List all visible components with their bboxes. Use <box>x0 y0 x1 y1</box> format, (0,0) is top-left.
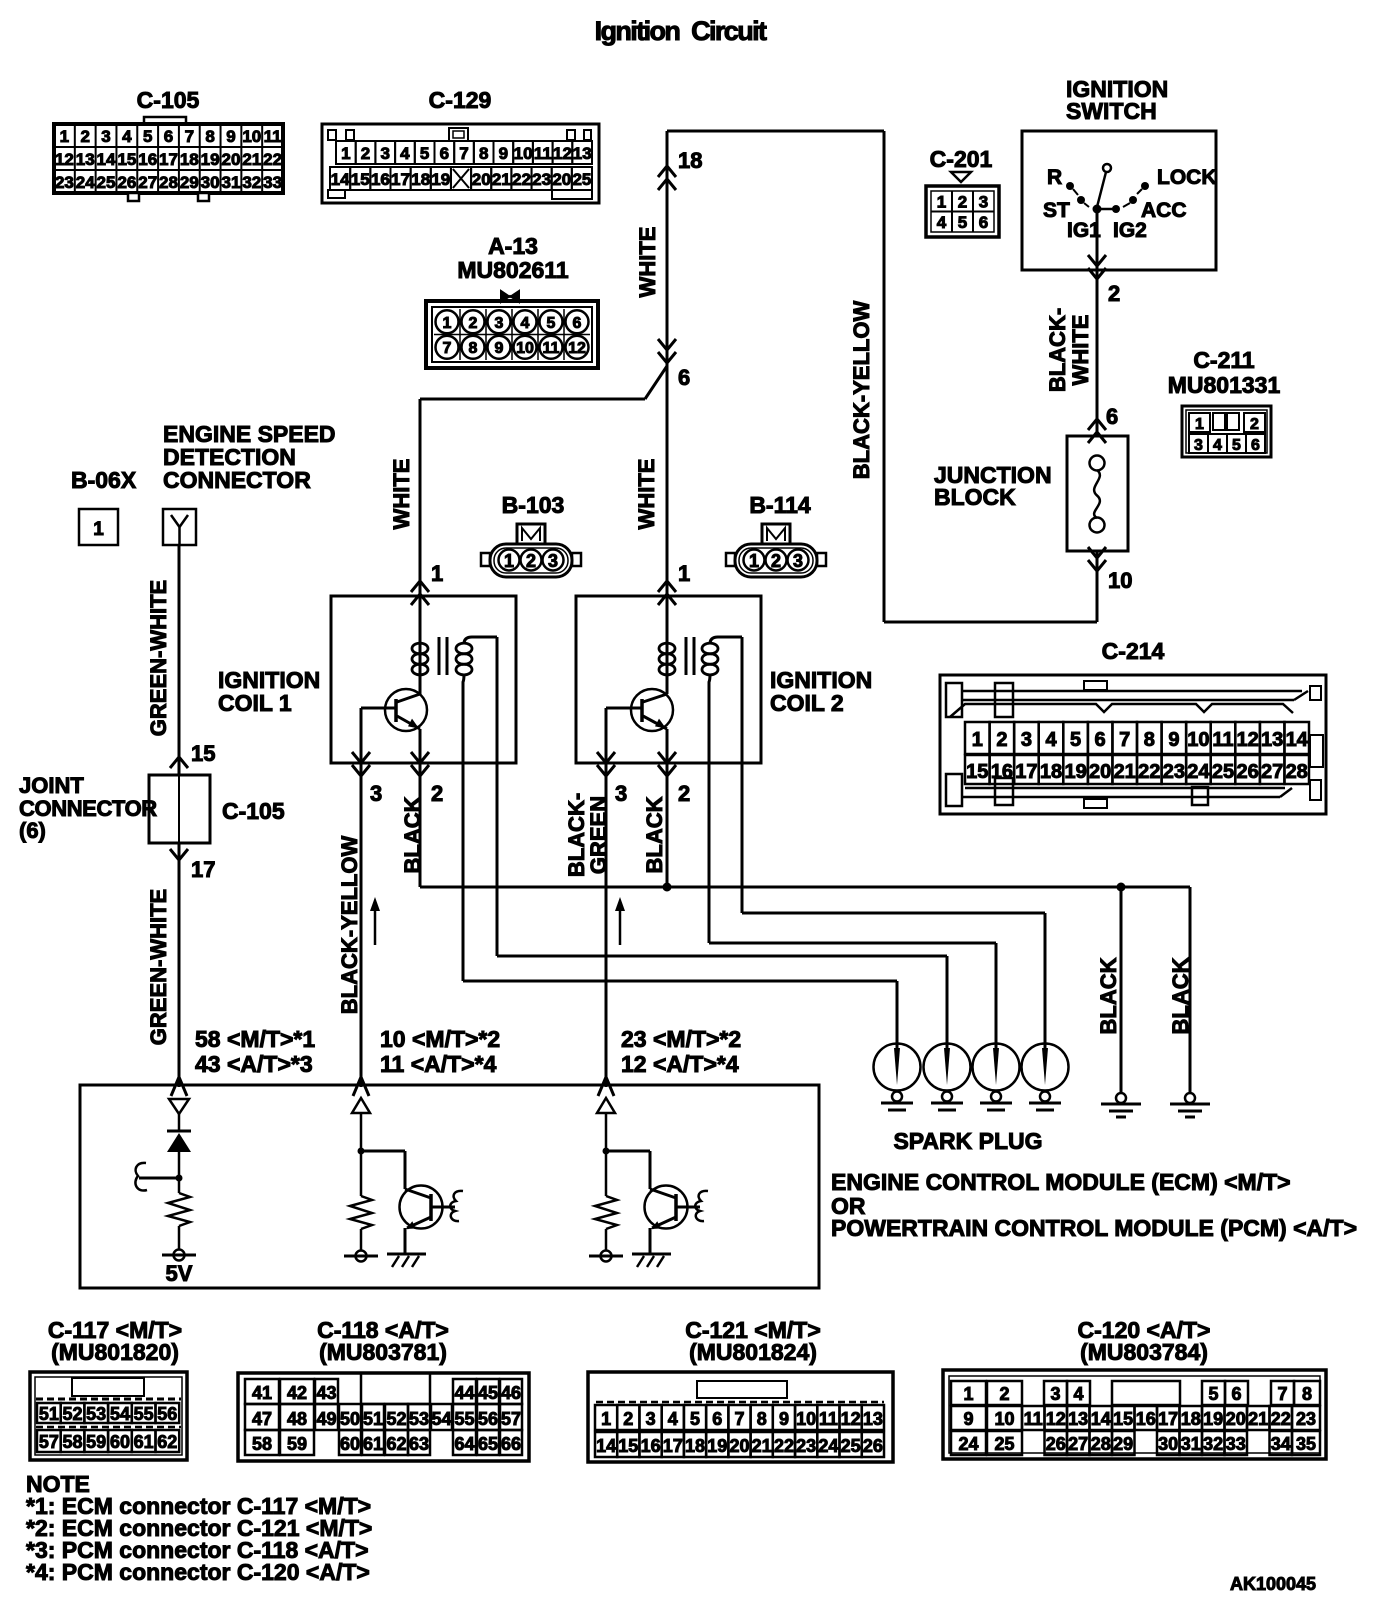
svg-text:WHITE: WHITE <box>1068 315 1093 386</box>
svg-text:23: 23 <box>55 173 74 192</box>
svg-text:14: 14 <box>97 150 116 169</box>
svg-text:18: 18 <box>1040 761 1062 783</box>
svg-text:2: 2 <box>1250 416 1259 433</box>
svg-text:34: 34 <box>1271 1434 1291 1454</box>
svg-text:17: 17 <box>1158 1409 1178 1429</box>
svg-text:19: 19 <box>707 1436 727 1456</box>
svg-text:LOCK: LOCK <box>1157 166 1217 189</box>
svg-text:2: 2 <box>771 551 781 571</box>
svg-text:24: 24 <box>818 1436 838 1456</box>
svg-text:2: 2 <box>678 781 690 806</box>
svg-text:28: 28 <box>1286 761 1308 783</box>
svg-text:WHITE: WHITE <box>389 459 414 530</box>
svg-text:POWERTRAIN CONTROL MODULE (PCM: POWERTRAIN CONTROL MODULE (PCM) <A/T> <box>831 1215 1357 1241</box>
svg-text:8: 8 <box>469 340 478 357</box>
svg-text:43: 43 <box>316 1383 336 1403</box>
svg-text:3: 3 <box>370 781 382 806</box>
svg-text:19: 19 <box>1064 761 1086 783</box>
svg-text:15: 15 <box>351 170 370 189</box>
svg-text:C-105: C-105 <box>137 87 200 113</box>
svg-text:57: 57 <box>39 1432 59 1452</box>
svg-text:54: 54 <box>431 1409 451 1429</box>
svg-text:20: 20 <box>552 170 571 189</box>
svg-text:BLACK: BLACK <box>642 796 667 873</box>
svg-text:WHITE: WHITE <box>635 227 660 298</box>
svg-text:17: 17 <box>663 1436 683 1456</box>
svg-text:11 <A/T>*4: 11 <A/T>*4 <box>380 1051 497 1077</box>
svg-text:13: 13 <box>76 150 95 169</box>
svg-text:6: 6 <box>979 213 988 232</box>
svg-text:4: 4 <box>400 144 410 163</box>
svg-text:17: 17 <box>391 170 410 189</box>
svg-text:1: 1 <box>443 315 452 332</box>
svg-text:5: 5 <box>690 1409 700 1429</box>
svg-text:16: 16 <box>991 761 1013 783</box>
svg-text:14: 14 <box>1091 1409 1111 1429</box>
svg-text:15: 15 <box>618 1436 638 1456</box>
svg-text:B-06X: B-06X <box>71 467 137 493</box>
svg-text:CONNECTOR: CONNECTOR <box>163 467 311 493</box>
svg-text:C-201: C-201 <box>930 146 993 172</box>
svg-text:2: 2 <box>361 144 370 163</box>
svg-text:20: 20 <box>472 170 491 189</box>
svg-text:19: 19 <box>201 150 220 169</box>
svg-text:1: 1 <box>504 551 514 571</box>
svg-text:BLOCK: BLOCK <box>934 484 1016 510</box>
svg-text:6: 6 <box>440 144 449 163</box>
svg-text:4: 4 <box>1045 729 1057 751</box>
svg-text:26: 26 <box>117 173 136 192</box>
svg-text:C-105: C-105 <box>222 798 285 824</box>
svg-text:10: 10 <box>242 127 261 146</box>
svg-text:R: R <box>1047 166 1062 189</box>
svg-text:5: 5 <box>143 127 152 146</box>
svg-text:5: 5 <box>1208 1384 1218 1404</box>
svg-text:6: 6 <box>1095 729 1106 751</box>
svg-text:2: 2 <box>1108 281 1120 306</box>
svg-text:COIL 2: COIL 2 <box>770 690 844 716</box>
svg-text:43 <A/T>*3: 43 <A/T>*3 <box>195 1051 313 1077</box>
svg-text:62: 62 <box>386 1434 406 1454</box>
svg-text:25: 25 <box>97 173 116 192</box>
svg-text:1: 1 <box>749 551 759 571</box>
svg-text:SWITCH: SWITCH <box>1066 98 1157 124</box>
svg-text:15: 15 <box>1113 1409 1133 1429</box>
svg-text:59: 59 <box>287 1434 307 1454</box>
svg-text:3: 3 <box>1050 1384 1060 1404</box>
svg-text:22: 22 <box>263 150 282 169</box>
svg-text:17: 17 <box>159 150 178 169</box>
svg-text:8: 8 <box>205 127 214 146</box>
svg-text:BLACK: BLACK <box>1168 957 1193 1034</box>
svg-text:19: 19 <box>1203 1409 1223 1429</box>
svg-text:12: 12 <box>1046 1409 1066 1429</box>
svg-text:(MU803784): (MU803784) <box>1080 1339 1208 1365</box>
svg-text:C-211: C-211 <box>1193 347 1255 373</box>
svg-text:12: 12 <box>553 144 572 163</box>
svg-text:6: 6 <box>1106 404 1118 429</box>
svg-text:15: 15 <box>966 761 988 783</box>
svg-text:9: 9 <box>779 1409 789 1429</box>
svg-text:42: 42 <box>287 1383 307 1403</box>
svg-text:4: 4 <box>521 315 530 332</box>
svg-text:12 <A/T>*4: 12 <A/T>*4 <box>621 1051 739 1077</box>
svg-text:*4: PCM connector C-120 <A/T>: *4: PCM connector C-120 <A/T> <box>26 1559 370 1585</box>
svg-text:56: 56 <box>157 1404 177 1424</box>
svg-text:IG2: IG2 <box>1113 219 1147 242</box>
svg-text:11: 11 <box>543 340 560 357</box>
svg-text:29: 29 <box>180 173 199 192</box>
svg-text:27: 27 <box>1068 1434 1088 1454</box>
svg-text:2: 2 <box>623 1409 633 1429</box>
svg-text:30: 30 <box>1158 1434 1178 1454</box>
svg-text:41: 41 <box>252 1383 272 1403</box>
svg-text:13: 13 <box>1261 729 1283 751</box>
svg-text:11: 11 <box>264 127 282 146</box>
svg-text:23: 23 <box>796 1436 816 1456</box>
svg-text:JOINT: JOINT <box>19 773 84 798</box>
svg-text:7: 7 <box>1119 729 1130 751</box>
svg-text:56: 56 <box>478 1409 498 1429</box>
svg-text:ENGINE CONTROL MODULE (ECM) <M: ENGINE CONTROL MODULE (ECM) <M/T> <box>831 1169 1291 1195</box>
svg-text:B-103: B-103 <box>502 492 565 518</box>
svg-text:1: 1 <box>937 193 946 212</box>
svg-text:21: 21 <box>492 170 511 189</box>
svg-text:21: 21 <box>242 150 261 169</box>
svg-text:(MU801824): (MU801824) <box>689 1339 817 1365</box>
svg-text:16: 16 <box>371 170 390 189</box>
svg-text:59: 59 <box>86 1432 106 1452</box>
svg-text:66: 66 <box>501 1434 521 1454</box>
svg-text:1: 1 <box>60 127 69 146</box>
svg-text:10: 10 <box>514 144 533 163</box>
svg-text:25: 25 <box>994 1434 1014 1454</box>
svg-text:8: 8 <box>1302 1384 1312 1404</box>
svg-text:11: 11 <box>819 1409 838 1429</box>
svg-text:14: 14 <box>331 170 350 189</box>
svg-text:5V: 5V <box>166 1261 193 1286</box>
svg-text:20: 20 <box>1226 1409 1246 1429</box>
svg-text:18: 18 <box>411 170 430 189</box>
svg-text:51: 51 <box>39 1404 59 1424</box>
svg-text:28: 28 <box>159 173 178 192</box>
svg-text:22: 22 <box>1271 1409 1291 1429</box>
svg-text:11: 11 <box>534 144 552 163</box>
svg-text:6: 6 <box>1231 1384 1241 1404</box>
svg-text:9: 9 <box>226 127 235 146</box>
svg-text:54: 54 <box>110 1404 130 1424</box>
svg-text:9: 9 <box>499 144 508 163</box>
svg-text:3: 3 <box>495 315 504 332</box>
svg-text:20: 20 <box>1089 761 1111 783</box>
svg-text:4: 4 <box>937 213 947 232</box>
svg-text:5: 5 <box>547 315 556 332</box>
svg-text:21: 21 <box>1114 761 1136 783</box>
svg-text:6: 6 <box>712 1409 722 1429</box>
svg-text:16: 16 <box>138 150 157 169</box>
svg-text:14: 14 <box>596 1436 616 1456</box>
svg-text:ACC: ACC <box>1141 199 1187 222</box>
svg-text:2: 2 <box>469 315 478 332</box>
svg-text:32: 32 <box>242 173 261 192</box>
svg-text:16: 16 <box>641 1436 661 1456</box>
svg-text:1: 1 <box>431 561 443 586</box>
svg-text:55: 55 <box>134 1404 154 1424</box>
svg-text:58 <M/T>*1: 58 <M/T>*1 <box>195 1026 315 1052</box>
svg-text:61: 61 <box>363 1434 383 1454</box>
svg-text:53: 53 <box>86 1404 106 1424</box>
svg-text:2: 2 <box>80 127 89 146</box>
svg-text:60: 60 <box>340 1434 360 1454</box>
svg-text:12: 12 <box>841 1409 861 1429</box>
svg-text:22: 22 <box>512 170 531 189</box>
svg-text:14: 14 <box>1286 729 1309 751</box>
svg-text:9: 9 <box>495 340 504 357</box>
svg-text:SPARK PLUG: SPARK PLUG <box>893 1128 1042 1154</box>
svg-text:1: 1 <box>678 561 690 586</box>
svg-text:17: 17 <box>191 857 215 882</box>
svg-text:4: 4 <box>1213 437 1222 454</box>
svg-text:30: 30 <box>201 173 220 192</box>
svg-text:GREEN-WHITE: GREEN-WHITE <box>146 580 171 736</box>
svg-text:15: 15 <box>117 150 136 169</box>
svg-text:27: 27 <box>138 173 157 192</box>
svg-text:9: 9 <box>1168 729 1179 751</box>
svg-text:2: 2 <box>526 551 536 571</box>
svg-text:BLACK: BLACK <box>1096 957 1121 1034</box>
svg-text:4: 4 <box>1073 1384 1083 1404</box>
svg-text:7: 7 <box>1277 1384 1287 1404</box>
svg-text:3: 3 <box>548 551 558 571</box>
svg-text:25: 25 <box>1212 761 1234 783</box>
svg-text:MU801331: MU801331 <box>1168 372 1281 398</box>
svg-text:26: 26 <box>1046 1434 1066 1454</box>
svg-text:3: 3 <box>1194 437 1203 454</box>
svg-text:18: 18 <box>180 150 199 169</box>
svg-text:19: 19 <box>431 170 450 189</box>
svg-text:BLACK-YELLOW: BLACK-YELLOW <box>337 836 362 1015</box>
svg-text:23: 23 <box>1163 761 1185 783</box>
svg-text:55: 55 <box>454 1409 474 1429</box>
svg-text:20: 20 <box>222 150 241 169</box>
svg-text:(6): (6) <box>19 818 46 843</box>
svg-text:26: 26 <box>1236 761 1258 783</box>
svg-text:5: 5 <box>420 144 429 163</box>
svg-text:9: 9 <box>963 1409 973 1429</box>
svg-text:10: 10 <box>796 1409 816 1429</box>
svg-text:4: 4 <box>122 127 132 146</box>
svg-text:10 <M/T>*2: 10 <M/T>*2 <box>380 1026 500 1052</box>
svg-text:8: 8 <box>757 1409 767 1429</box>
svg-text:49: 49 <box>316 1409 336 1429</box>
svg-text:25: 25 <box>572 170 591 189</box>
svg-text:46: 46 <box>501 1383 521 1403</box>
svg-text:2: 2 <box>431 781 443 806</box>
svg-text:22: 22 <box>774 1436 794 1456</box>
svg-text:10: 10 <box>1108 568 1132 593</box>
svg-text:18: 18 <box>685 1436 705 1456</box>
svg-text:2: 2 <box>999 1384 1009 1404</box>
svg-text:3: 3 <box>646 1409 656 1429</box>
svg-text:1: 1 <box>341 144 350 163</box>
svg-text:31: 31 <box>222 173 241 192</box>
svg-text:31: 31 <box>1181 1434 1201 1454</box>
svg-text:WHITE: WHITE <box>634 459 659 530</box>
svg-text:5: 5 <box>1232 437 1241 454</box>
svg-text:A-13: A-13 <box>488 233 538 259</box>
svg-text:21: 21 <box>1248 1409 1268 1429</box>
svg-text:11: 11 <box>1024 1409 1043 1429</box>
svg-text:7: 7 <box>459 144 468 163</box>
svg-text:Ignition Circuit: Ignition Circuit <box>595 16 767 46</box>
svg-text:58: 58 <box>252 1434 272 1454</box>
svg-text:65: 65 <box>478 1434 498 1454</box>
svg-text:ST: ST <box>1043 199 1070 222</box>
svg-text:1: 1 <box>963 1384 973 1404</box>
svg-text:18: 18 <box>1181 1409 1201 1429</box>
svg-text:33: 33 <box>1226 1434 1246 1454</box>
svg-text:3: 3 <box>1021 729 1032 751</box>
svg-text:24: 24 <box>958 1434 978 1454</box>
svg-text:AK100045: AK100045 <box>1230 1574 1316 1594</box>
svg-text:63: 63 <box>409 1434 429 1454</box>
svg-text:12: 12 <box>568 340 586 357</box>
svg-text:10: 10 <box>994 1409 1014 1429</box>
svg-text:26: 26 <box>863 1436 883 1456</box>
svg-text:51: 51 <box>363 1409 383 1429</box>
svg-text:11: 11 <box>1212 729 1233 751</box>
svg-text:5: 5 <box>1070 729 1081 751</box>
svg-text:1: 1 <box>93 519 104 540</box>
svg-text:3: 3 <box>101 127 110 146</box>
svg-text:52: 52 <box>62 1404 82 1424</box>
svg-text:12: 12 <box>55 150 74 169</box>
svg-text:3: 3 <box>380 144 389 163</box>
svg-text:62: 62 <box>157 1432 177 1452</box>
svg-text:3: 3 <box>615 781 627 806</box>
svg-text:10: 10 <box>1187 729 1209 751</box>
svg-text:23: 23 <box>1296 1409 1316 1429</box>
svg-text:6: 6 <box>1251 437 1260 454</box>
svg-text:10: 10 <box>516 340 534 357</box>
svg-text:16: 16 <box>1136 1409 1156 1429</box>
svg-text:4: 4 <box>668 1409 678 1429</box>
svg-text:12: 12 <box>1236 729 1258 751</box>
svg-text:44: 44 <box>454 1383 474 1403</box>
svg-text:18: 18 <box>678 148 702 173</box>
svg-text:13: 13 <box>573 144 592 163</box>
svg-text:6: 6 <box>678 365 690 390</box>
svg-text:GREEN-WHITE: GREEN-WHITE <box>146 889 171 1045</box>
svg-text:3: 3 <box>793 551 803 571</box>
svg-text:21: 21 <box>752 1436 772 1456</box>
svg-text:BLACK-: BLACK- <box>1045 308 1070 392</box>
svg-text:BLACK-YELLOW: BLACK-YELLOW <box>849 301 874 480</box>
svg-text:45: 45 <box>478 1383 498 1403</box>
svg-text:13: 13 <box>863 1409 883 1429</box>
svg-text:33: 33 <box>263 173 282 192</box>
svg-text:6: 6 <box>164 127 173 146</box>
svg-text:32: 32 <box>1203 1434 1223 1454</box>
svg-text:57: 57 <box>501 1409 521 1429</box>
svg-text:2: 2 <box>996 729 1007 751</box>
svg-text:48: 48 <box>287 1409 307 1429</box>
svg-text:17: 17 <box>1015 761 1037 783</box>
svg-text:23 <M/T>*2: 23 <M/T>*2 <box>621 1026 741 1052</box>
svg-text:5: 5 <box>958 213 967 232</box>
svg-text:1: 1 <box>601 1409 611 1429</box>
svg-text:47: 47 <box>252 1409 272 1429</box>
svg-text:24: 24 <box>76 173 95 192</box>
svg-text:7: 7 <box>734 1409 744 1429</box>
svg-text:(MU803781): (MU803781) <box>319 1339 447 1365</box>
svg-text:B-114: B-114 <box>749 492 811 518</box>
svg-text:24: 24 <box>1187 761 1210 783</box>
svg-text:52: 52 <box>386 1409 406 1429</box>
svg-text:58: 58 <box>62 1432 82 1452</box>
svg-text:1: 1 <box>1195 416 1204 433</box>
svg-text:25: 25 <box>841 1436 861 1456</box>
svg-text:60: 60 <box>110 1432 130 1452</box>
svg-text:64: 64 <box>454 1434 474 1454</box>
svg-text:MU802611: MU802611 <box>457 257 568 283</box>
svg-text:50: 50 <box>340 1409 360 1429</box>
svg-text:35: 35 <box>1296 1434 1316 1454</box>
svg-text:13: 13 <box>1068 1409 1088 1429</box>
svg-text:6: 6 <box>573 315 582 332</box>
svg-text:22: 22 <box>1138 761 1160 783</box>
svg-text:20: 20 <box>729 1436 749 1456</box>
svg-text:23: 23 <box>532 170 551 189</box>
svg-text:(MU801820): (MU801820) <box>51 1339 179 1365</box>
svg-text:C-129: C-129 <box>429 87 492 113</box>
svg-text:8: 8 <box>1144 729 1155 751</box>
svg-text:7: 7 <box>185 127 194 146</box>
svg-text:61: 61 <box>134 1432 154 1452</box>
svg-text:COIL 1: COIL 1 <box>218 690 292 716</box>
svg-text:7: 7 <box>443 340 452 357</box>
svg-text:15: 15 <box>191 741 215 766</box>
svg-text:27: 27 <box>1261 761 1283 783</box>
svg-text:53: 53 <box>409 1409 429 1429</box>
svg-text:1: 1 <box>972 729 983 751</box>
svg-text:28: 28 <box>1091 1434 1111 1454</box>
svg-text:8: 8 <box>479 144 488 163</box>
svg-text:C-214: C-214 <box>1102 638 1165 664</box>
svg-text:29: 29 <box>1113 1434 1133 1454</box>
svg-text:3: 3 <box>979 193 988 212</box>
svg-text:2: 2 <box>958 193 967 212</box>
